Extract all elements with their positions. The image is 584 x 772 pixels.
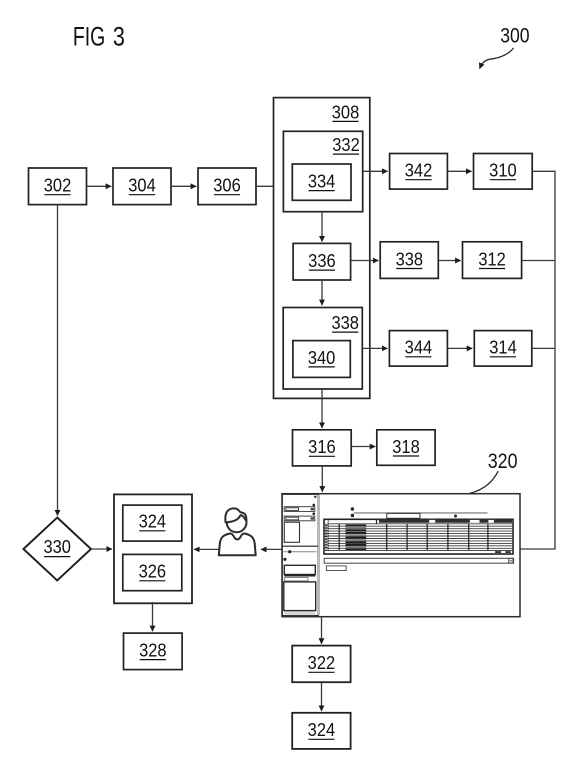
box 318	[377, 430, 435, 466]
box 304	[113, 168, 171, 205]
box container 324-326	[114, 494, 192, 603]
svg-text:318: 318	[392, 436, 419, 457]
svg-text:326: 326	[139, 561, 166, 582]
wire 324-326 down to 328	[152, 602, 154, 631]
wire 338 outer to 344	[362, 347, 387, 349]
box 338 outer	[283, 308, 362, 390]
box 316	[293, 430, 352, 466]
box 338 row2	[380, 242, 438, 279]
svg-text:344: 344	[405, 337, 433, 358]
box 336	[293, 243, 351, 280]
wire person to decision box	[194, 548, 219, 550]
wire 316 to 318	[351, 446, 375, 448]
svg-text:338: 338	[331, 312, 358, 333]
wire 342 to 310	[447, 170, 471, 172]
svg-text:328: 328	[139, 640, 166, 661]
wire 308 down to 316	[321, 389, 323, 428]
box 334	[292, 164, 351, 200]
svg-text:314: 314	[489, 337, 517, 358]
box 340	[293, 341, 350, 378]
box 326	[123, 554, 182, 590]
box 324 bottom	[292, 713, 350, 749]
svg-text:308: 308	[332, 101, 359, 122]
svg-text:304: 304	[128, 175, 156, 196]
svg-text:324: 324	[139, 511, 167, 532]
svg-text:324: 324	[308, 719, 336, 740]
wire 330 to box 324-326	[91, 548, 112, 550]
box 308	[274, 98, 370, 399]
wire 322 down to 324	[321, 682, 323, 711]
box 310	[474, 154, 533, 190]
svg-text:3: 3	[113, 22, 125, 52]
screenshot sidebar panel	[282, 494, 320, 616]
box 344	[389, 331, 447, 367]
svg-text:330: 330	[43, 536, 70, 557]
box 312	[463, 242, 522, 279]
box 332	[283, 131, 362, 211]
right rail vertical	[554, 171, 556, 549]
box 342	[390, 154, 448, 190]
box 306	[198, 168, 256, 205]
svg-text:336: 336	[308, 250, 335, 271]
svg-text:FIG: FIG	[73, 21, 105, 51]
wire 332 down to 336	[321, 212, 323, 242]
svg-text:338: 338	[396, 249, 423, 270]
svg-text:342: 342	[405, 160, 432, 181]
leader line for 320	[469, 471, 498, 493]
svg-text:322: 322	[308, 652, 335, 673]
wire 310 to right rail	[532, 170, 555, 172]
svg-text:332: 332	[332, 134, 359, 155]
svg-text:312: 312	[478, 249, 505, 270]
wire 302 down to 330	[57, 205, 59, 516]
wire 344 to 314	[447, 347, 472, 349]
wire 302 to 304	[87, 185, 112, 187]
wire 316 down to 320	[321, 466, 323, 492]
wire 338 to 312	[438, 260, 460, 262]
svg-text:316: 316	[308, 436, 335, 457]
wire 306 to 332	[256, 185, 282, 187]
person icon	[219, 508, 256, 555]
box 320	[282, 494, 520, 617]
svg-text:306: 306	[213, 175, 240, 196]
box 328	[124, 633, 183, 670]
right rail into 320	[520, 548, 556, 550]
svg-text:300: 300	[500, 24, 529, 48]
svg-text:302: 302	[44, 175, 71, 196]
box 324	[123, 505, 182, 541]
wire 320 to person	[261, 548, 282, 550]
svg-text:334: 334	[308, 171, 336, 192]
screenshot main table	[324, 507, 514, 570]
wire 314 to right rail	[532, 347, 555, 349]
wire 336 down to 338	[321, 280, 323, 305]
wire 320 down to 322	[321, 617, 323, 644]
box 302	[29, 168, 87, 205]
svg-text:320: 320	[488, 450, 518, 474]
svg-text:310: 310	[489, 160, 516, 181]
wire 304 to 306	[171, 185, 196, 187]
svg-text:340: 340	[308, 347, 335, 368]
wire 312 to right rail	[522, 260, 555, 262]
box 322	[292, 646, 350, 683]
wire 332 to 342	[363, 170, 388, 172]
diamond 330	[23, 518, 91, 581]
wire 336 to 338	[351, 260, 379, 262]
leader arrow for 300	[480, 48, 514, 69]
box 314	[474, 331, 532, 367]
